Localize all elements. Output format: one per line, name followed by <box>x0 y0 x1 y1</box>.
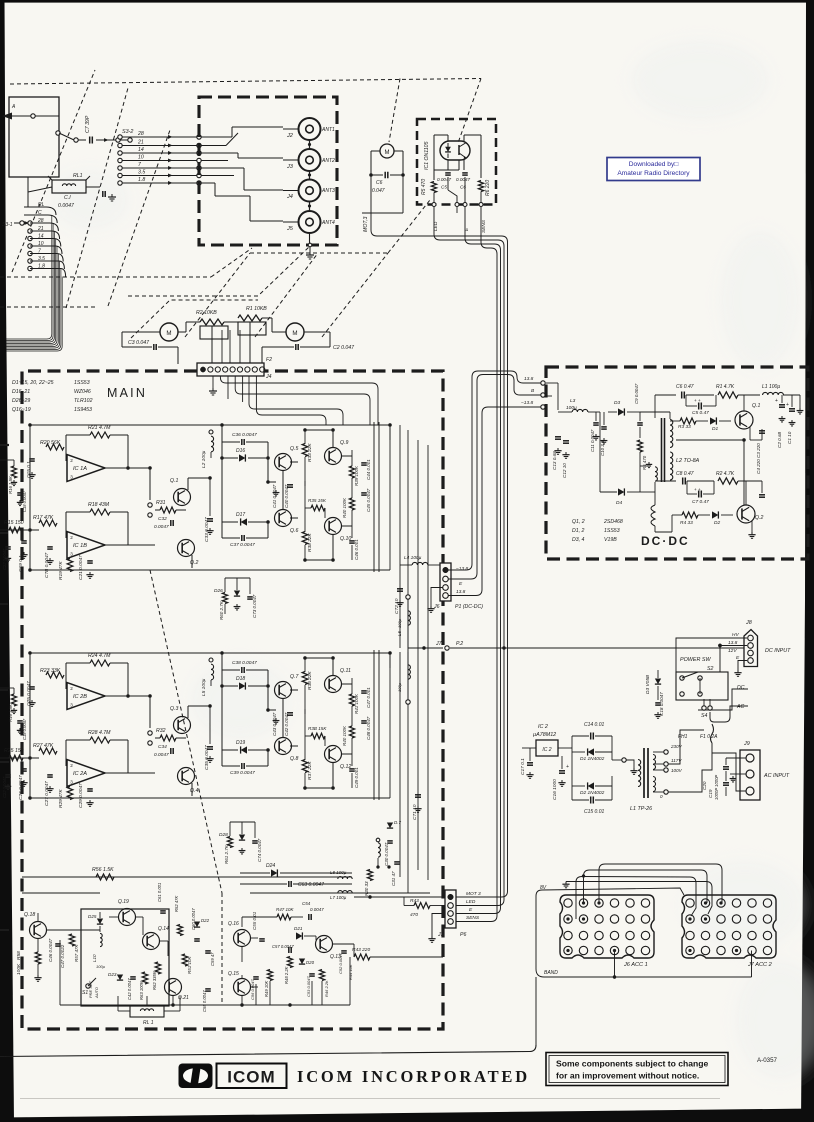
S3-1 wire bundle down and left <box>6 215 52 339</box>
capacitor C39 <box>241 763 243 769</box>
connector J4 ANT3 <box>299 180 321 202</box>
IC1 internal rails <box>434 134 448 136</box>
svg-text:C63 0.0047: C63 0.0047 <box>298 882 324 888</box>
svg-text:Q.7: Q.7 <box>290 674 299 680</box>
svg-text:L1 100µ: L1 100µ <box>762 384 780 390</box>
capacitor C7 39P <box>89 137 91 144</box>
pin J6 ACC 1 r2c5 <box>626 915 634 923</box>
left margin stub 4 <box>0 689 8 691</box>
meter M right <box>286 323 304 341</box>
svg-text:WZ046: WZ046 <box>74 389 91 395</box>
svg-text:C52 0.0047: C52 0.0047 <box>338 953 343 974</box>
page top border bar <box>0 0 814 3</box>
svg-text:C48 0.0047: C48 0.0047 <box>366 716 371 740</box>
svg-text:13.8: 13.8 <box>456 589 466 595</box>
dashed linkage diagonal 3 <box>108 130 170 306</box>
svg-text:C7 39P: C7 39P <box>85 115 91 133</box>
connector J2 ANT1 <box>299 118 321 140</box>
svg-text:Q.8: Q.8 <box>290 756 298 762</box>
pin J6 ACC 1 r4c4 <box>610 946 618 954</box>
pin J6 ACC 1 r3c4 <box>610 931 618 939</box>
svg-text:D21: D21 <box>294 926 303 931</box>
svg-text:C19: C19 <box>708 789 713 798</box>
svg-text:L5 100µ: L5 100µ <box>201 678 207 696</box>
svg-text:+ +: + + <box>694 487 701 492</box>
svg-text:C27 0.0047: C27 0.0047 <box>44 781 50 806</box>
chain wires between connectors <box>309 140 311 149</box>
svg-text:C39 0.0047: C39 0.0047 <box>230 770 255 776</box>
svg-text:100µ: 100µ <box>566 405 577 411</box>
transistor Q.11 <box>325 676 342 693</box>
pin J6 ACC 1 r2c4 <box>610 915 618 923</box>
resistor R35 15K horizontal <box>311 505 325 511</box>
svg-text:0.0047: 0.0047 <box>437 177 451 182</box>
svg-text:A: A <box>11 104 16 110</box>
svg-text:R20 56K: R20 56K <box>40 440 61 446</box>
svg-text:C31 47: C31 47 <box>391 871 396 886</box>
dashed linkage line upper <box>10 79 481 85</box>
svg-text:Q.15: Q.15 <box>228 971 239 977</box>
pin J6 ACC 1 r1c1 <box>564 899 572 907</box>
svg-text:C38 0.0047: C38 0.0047 <box>232 660 257 666</box>
block wiring rails <box>30 424 390 426</box>
svg-text:R43 220: R43 220 <box>352 947 370 953</box>
right column resistors caps <box>349 466 354 478</box>
svg-text:C61 0.001: C61 0.001 <box>157 883 162 902</box>
svg-text:3.5: 3.5 <box>138 170 145 176</box>
feedback resistor R24 4.7M <box>90 660 110 666</box>
transistor Q14 <box>143 933 160 950</box>
svg-text:SENS: SENS <box>466 915 480 921</box>
potentiometer R1 10KB <box>238 315 262 321</box>
svg-text:R31: R31 <box>156 500 166 506</box>
svg-text:3: 3 <box>70 780 73 785</box>
svg-text:L4 100µ: L4 100µ <box>404 555 422 561</box>
transistor Q16 <box>234 930 251 947</box>
pin J7 ACC 2 r1c4 <box>732 899 740 907</box>
svg-text:AC INPUT: AC INPUT <box>763 773 790 779</box>
diode D25 <box>97 919 103 925</box>
trunk wire E from IC1 to J3 pin3 <box>454 207 501 914</box>
svg-text:0.0047: 0.0047 <box>456 177 470 182</box>
svg-text:28: 28 <box>137 131 144 137</box>
svg-text:2: 2 <box>70 686 73 691</box>
svg-text:R44 10K: R44 10K <box>348 964 353 980</box>
svg-text:S3-1: S3-1 <box>2 222 13 228</box>
resistor R49 10K <box>267 970 272 981</box>
dashed pot top rail <box>250 252 388 254</box>
pin J6 ACC 1 r4c2 <box>579 946 587 954</box>
8V BAND loop vertical <box>535 896 537 969</box>
dashed diagonal at S3-1 rail end <box>211 248 252 277</box>
resistor R27 47K <box>39 748 57 754</box>
long rail R56 <box>22 876 352 878</box>
capacitor C33 0.0047 <box>207 518 213 520</box>
pin J7 ACC 2 r2c1 <box>686 915 694 923</box>
feedback resistor R28 4.7M <box>90 737 110 743</box>
svg-text:C22 0.0047: C22 0.0047 <box>2 548 7 570</box>
rectifier mid tap <box>612 759 622 761</box>
svg-text:C21 0.0047: C21 0.0047 <box>78 555 84 580</box>
pin J7 ACC 2 r4c4 <box>732 946 740 954</box>
svg-text:C55 0.01: C55 0.01 <box>252 911 257 930</box>
ground J3 <box>431 936 433 939</box>
transformer L2 TO-8A <box>661 418 663 482</box>
optocoupler transistor symbol <box>458 145 460 155</box>
coil L4 100u <box>412 562 428 565</box>
meter legs with capacitor C6 0.047 <box>371 150 380 152</box>
svg-text:C1 10: C1 10 <box>787 431 792 444</box>
transistor Q.12 <box>325 746 342 763</box>
transistor Q13 <box>316 936 333 953</box>
pin J6 ACC 1 r1c4 <box>610 899 618 907</box>
dashed parallelogram to pots <box>128 246 310 296</box>
resistor R62 335K <box>155 962 161 974</box>
wavy winding left of Q2 row <box>651 505 655 526</box>
svg-text:C12 10: C12 10 <box>562 463 567 478</box>
svg-text:R5 470: R5 470 <box>421 179 427 195</box>
svg-text:IC 1B: IC 1B <box>73 543 87 549</box>
svg-text:C6 0.47: C6 0.47 <box>676 384 694 390</box>
wire IC2 out <box>558 747 572 749</box>
svg-text:1.8: 1.8 <box>138 177 145 183</box>
svg-text:HV: HV <box>732 632 739 638</box>
resistor R20 56K <box>46 444 64 450</box>
svg-text:C16 1000: C16 1000 <box>552 779 558 800</box>
input caps block <box>29 686 35 688</box>
svg-text:+: + <box>786 402 789 408</box>
resistor R33 22K vertical <box>302 444 308 457</box>
svg-text:100K: 100K <box>16 963 22 975</box>
pin J7 ACC 2 r4c3 <box>717 946 725 954</box>
op-amp IC 2B <box>67 683 105 710</box>
diode D16 <box>239 454 245 461</box>
transistor Q.3 <box>174 717 191 734</box>
block output coil <box>209 430 213 434</box>
tap wires to switch <box>668 712 704 752</box>
resistor R38 22K vertical <box>302 532 308 545</box>
svg-text:POWER SW: POWER SW <box>680 657 711 663</box>
dashed AGC line diagonal <box>150 570 222 893</box>
svg-text:L2 TO-8A: L2 TO-8A <box>676 458 700 464</box>
pin J7 ACC 2 r1c3 <box>717 899 725 907</box>
svg-text:R3B 15K: R3B 15K <box>308 726 327 731</box>
svg-text:2: 2 <box>70 763 73 768</box>
optocoupler stadium IC1 <box>440 141 470 160</box>
transistor Q.6 <box>275 510 292 527</box>
DC-DC top rail <box>546 371 800 373</box>
capacitor C58 0.0047 <box>205 988 211 990</box>
svg-text:D26~29: D26~29 <box>12 398 30 404</box>
resistor R30 33 vertical <box>367 870 372 881</box>
feedback resistor R18 43M <box>90 509 110 515</box>
DC-DC input caps C13 C12 <box>546 382 558 384</box>
svg-text:R1 10KB: R1 10KB <box>246 306 267 312</box>
svg-text:F2: F2 <box>266 357 272 363</box>
nested wire ACC1 r1c2 to ACC2 r1c2 <box>584 870 708 903</box>
diode D21 <box>296 932 302 939</box>
mid caps <box>287 712 293 714</box>
svg-text:J8: J8 <box>745 620 752 626</box>
svg-text:R23 33K: R23 33K <box>40 668 61 674</box>
dashed pot linkage 1 <box>131 300 258 338</box>
svg-text:AC: AC <box>736 704 744 710</box>
diode D23 <box>117 975 123 981</box>
svg-text:0.0047: 0.0047 <box>58 203 75 209</box>
pin J6 ACC 1 r2c1 <box>564 915 572 923</box>
diode D28 block2 <box>239 835 245 841</box>
Q pair vertical wires <box>187 478 189 490</box>
wire 8V loop top to ACC2 <box>536 888 684 896</box>
caps C60 C59 <box>194 938 200 940</box>
svg-text:C73 0.0047: C73 0.0047 <box>252 594 257 618</box>
trunk wire MOT3 from meter to J3 pin1 <box>371 175 508 897</box>
svg-text:MOT,3: MOT,3 <box>363 217 369 232</box>
coil L6 100u vertical <box>408 665 410 679</box>
svg-text:1SS53: 1SS53 <box>604 528 620 534</box>
svg-text:C.I: C.I <box>64 195 71 201</box>
op-amp IC 1A <box>67 455 105 482</box>
svg-text:D24: D24 <box>266 863 275 869</box>
wire F2 pin to bus 1 <box>220 376 378 425</box>
svg-text:3: 3 <box>70 475 73 480</box>
dashed linkage drop to meter M <box>389 79 400 143</box>
row C5 <box>698 403 700 410</box>
pin J6 ACC 1 r2c3 <box>595 915 603 923</box>
svg-text:IC1 ON1105: IC1 ON1105 <box>424 141 430 170</box>
svg-text:C3 220: C3 220 <box>756 443 761 458</box>
transformer L1 TP-26 <box>638 760 641 787</box>
resistor R46 2.2K <box>319 970 324 981</box>
svg-text:Q.2: Q.2 <box>190 560 198 566</box>
resistor R63 100K <box>142 972 148 984</box>
connector strip F2 J4 <box>197 363 264 376</box>
svg-text:D16: D16 <box>236 448 245 454</box>
page right border strip <box>801 0 814 1122</box>
feedback resistor R21 4.7M <box>90 432 110 438</box>
band line 1.8 <box>118 181 122 185</box>
notice box <box>546 1053 728 1086</box>
optocoupler LED symbol <box>445 147 451 152</box>
svg-text:100µ: 100µ <box>397 682 402 692</box>
svg-text:C33 0.0047: C33 0.0047 <box>204 517 210 542</box>
capacitor C42 0.0047 <box>130 976 136 978</box>
row C6 R1 L1 <box>655 394 676 396</box>
svg-text:ANT1: ANT1 <box>321 127 335 133</box>
transformer bottom to Q2 <box>669 481 671 492</box>
wire J3 E down to ground <box>432 914 445 937</box>
svg-text:C5 0.47: C5 0.47 <box>692 410 709 416</box>
svg-text:C53 0.0047: C53 0.0047 <box>306 976 311 997</box>
svg-text:1SS53: 1SS53 <box>74 380 90 386</box>
coil L7b vertical <box>376 838 380 842</box>
Q1 connections <box>743 395 745 411</box>
coil L3 100u <box>572 409 588 412</box>
transistor Q.8 <box>275 738 292 755</box>
coil L5 100u vertical <box>408 611 410 625</box>
block right double rails <box>373 650 375 800</box>
S3-1 row 7 <box>28 251 32 255</box>
svg-text:−13.8: −13.8 <box>521 400 533 406</box>
band line 3.5 <box>118 173 122 177</box>
connector J3 ANT2 <box>299 149 321 171</box>
svg-text:Q1, 2: Q1, 2 <box>572 519 585 525</box>
left margin stub 6 <box>0 929 9 931</box>
svg-text:C54: C54 <box>302 901 311 906</box>
svg-text:1000P 1000P: 1000P 1000P <box>714 775 719 800</box>
svg-text:2: 2 <box>70 458 73 463</box>
S3-1 row 1.8 <box>28 266 32 270</box>
svg-text:Q.16: Q.16 <box>228 921 239 927</box>
node S3-2 <box>128 138 132 142</box>
capacitor C1 0.0047 <box>86 186 100 188</box>
svg-text:117V: 117V <box>671 758 682 763</box>
svg-text:R21 4.7M: R21 4.7M <box>88 425 111 431</box>
pin J6 ACC 1 r1c3 <box>595 899 603 907</box>
faint scan line above bottom bar <box>20 1098 720 1099</box>
DC-DC converter dashed box <box>546 367 808 559</box>
diode D24 <box>271 869 277 876</box>
svg-text:7: 7 <box>138 162 142 168</box>
connector J5 ANT4 <box>299 211 321 233</box>
svg-text:S1: S1 <box>82 990 88 996</box>
diode D11 right column <box>387 823 393 829</box>
transistor Q2 DC-DC <box>737 505 755 523</box>
svg-text:100µ: 100µ <box>96 964 106 969</box>
svg-text:R60 2.7K: R60 2.7K <box>219 600 224 620</box>
svg-text:C46 0.0047: C46 0.0047 <box>48 938 53 962</box>
diode D22 <box>194 922 200 928</box>
svg-text:Q.11: Q.11 <box>340 668 351 674</box>
optocoupler box IC1 dashed <box>417 119 496 205</box>
left margin stub 2 <box>0 532 8 534</box>
svg-text:ANT3: ANT3 <box>321 188 335 194</box>
svg-text:C46 0.001: C46 0.001 <box>354 539 359 560</box>
pot wiring <box>178 331 186 333</box>
pin J7 ACC 2 r1c2 <box>701 899 709 907</box>
svg-text:R27 47K: R27 47K <box>33 743 54 749</box>
pin J6 ACC 1 r3c1 <box>564 931 572 939</box>
svg-text:D3, 4: D3, 4 <box>572 537 585 543</box>
svg-text:0: 0 <box>660 794 663 799</box>
svg-text:C4 220: C4 220 <box>756 459 761 474</box>
ground hook at J8 pin E <box>738 661 747 671</box>
svg-text:R32: R32 <box>156 728 166 734</box>
svg-text:MAIN: MAIN <box>107 386 147 400</box>
connector J3 P6 <box>445 890 456 928</box>
svg-text:M: M <box>292 330 297 337</box>
svg-text:+: + <box>775 398 778 404</box>
mid caps <box>287 484 293 486</box>
svg-text:1S9453: 1S9453 <box>74 407 92 413</box>
svg-text:IC 1A: IC 1A <box>73 466 87 472</box>
svg-text:Q.1: Q.1 <box>752 403 760 409</box>
pin J7 ACC 2 r2c6 <box>763 915 771 923</box>
svg-text:R58: R58 <box>16 951 22 960</box>
nested wire ACC1 r2c1 to ACC2 r2c1 <box>576 877 696 920</box>
capacitor C4 0.0047 <box>462 172 468 174</box>
S3-1 row 21 <box>28 229 32 233</box>
band line 10 <box>118 158 122 162</box>
svg-text:J7: J7 <box>435 641 443 647</box>
transformer taps <box>653 751 664 753</box>
svg-text:V19B: V19B <box>604 537 617 543</box>
pin J7 ACC 2 r1c6 <box>763 899 771 907</box>
capacitor C54 0.0047 <box>308 914 310 920</box>
input caps block <box>29 458 35 460</box>
diode D3 <box>618 408 624 415</box>
long bottom line to page left <box>0 1045 536 1057</box>
svg-text:C47 0.001: C47 0.001 <box>366 687 371 708</box>
meter M left <box>160 323 178 341</box>
svg-text:for an improvement without not: for an improvement without notice. <box>556 1071 699 1081</box>
svg-text:Q.6: Q.6 <box>290 528 298 534</box>
svg-text:D19: D19 <box>236 740 245 746</box>
Q2 collector to mid rail <box>743 440 745 505</box>
capacitor C5 0.0047 <box>445 172 451 174</box>
svg-text:ICOM INCORPORATED: ICOM INCORPORATED <box>297 1067 530 1086</box>
svg-text:J5: J5 <box>286 226 294 232</box>
dashed pot linkage diag b <box>255 253 318 337</box>
dashed linkage drop to IC1 <box>458 79 481 144</box>
capacitor C3 0.047 <box>122 331 160 333</box>
svg-text:R39 100K: R39 100K <box>354 465 359 486</box>
svg-text:C36 0.0047: C36 0.0047 <box>232 432 257 438</box>
transistor Q18 <box>30 922 47 939</box>
transistor Q21 <box>165 979 182 996</box>
band line 14 <box>118 151 122 155</box>
svg-text:R28 4.7M: R28 4.7M <box>88 730 111 736</box>
ground mid tap <box>626 760 634 768</box>
page bottom border bar <box>0 1109 814 1122</box>
connector block J7 ACC 2 <box>682 895 776 958</box>
svg-text:SENS: SENS <box>481 219 487 233</box>
svg-text:M: M <box>385 150 390 156</box>
svg-text:J9: J9 <box>743 741 750 747</box>
svg-text:F1 0.2A: F1 0.2A <box>700 734 718 740</box>
resistor R43 470 near J3 <box>414 903 430 909</box>
svg-text:C44 0.001: C44 0.001 <box>366 459 371 480</box>
svg-text:C29 0.0047: C29 0.0047 <box>78 783 84 808</box>
svg-text:+: + <box>566 764 569 770</box>
pin J7 ACC 2 r3c5 <box>748 931 756 939</box>
pin J7 ACC 2 r4c5 <box>748 946 756 954</box>
svg-text:ANT4: ANT4 <box>321 220 335 226</box>
svg-text:C26 0.0047: C26 0.0047 <box>18 775 24 800</box>
svg-text:RL 1: RL 1 <box>143 1020 154 1026</box>
svg-text:D3: D3 <box>614 400 620 406</box>
transistor Q15 <box>234 979 251 996</box>
svg-text:C40 0.0047: C40 0.0047 <box>284 484 289 508</box>
pin J6 ACC 1 r3c2 <box>579 931 587 939</box>
svg-text:R4 33: R4 33 <box>680 520 693 526</box>
junction dots <box>28 651 31 654</box>
left margin stub 5 <box>0 761 9 763</box>
transistor Q.2 <box>178 540 195 557</box>
svg-text:C35 0.0047: C35 0.0047 <box>204 745 210 770</box>
left column caps <box>21 540 27 542</box>
svg-text:J7 ACC 2: J7 ACC 2 <box>747 962 773 968</box>
svg-text:C37 0.0047: C37 0.0047 <box>230 542 255 548</box>
caps right of Q13 <box>341 950 347 952</box>
dashed linkage toward IC1 box <box>388 200 430 253</box>
diode D20 <box>299 959 305 965</box>
svg-text:J4: J4 <box>265 374 272 380</box>
downloaded-by box <box>607 158 700 181</box>
pin J6 ACC 1 r1c5 <box>626 899 634 907</box>
svg-text:Amateur Radio Directory: Amateur Radio Directory <box>617 170 690 177</box>
capacitor C31 47 <box>394 861 400 863</box>
